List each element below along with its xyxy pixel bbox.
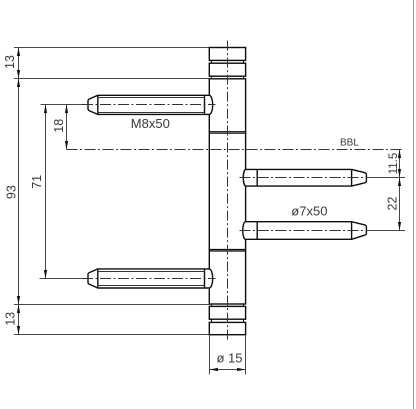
extension of upper-left screw axis <box>41 104 88 106</box>
hinge barrel top cap <box>209 48 245 61</box>
arrow up at 304.5 (13 dim) <box>17 305 20 314</box>
groove 3 inset walls <box>210 304 212 306</box>
extension line bottom of body <box>14 304 209 306</box>
hinge barrel bottom cap <box>209 322 245 334</box>
dimension line right chain <box>399 150 401 231</box>
svg-text:11.5: 11.5 <box>388 153 400 175</box>
hinge barrel main body <box>209 79 245 304</box>
groove 1 inset walls <box>210 60 212 63</box>
centerline upper-right screw over body <box>240 177 368 179</box>
svg-text:M8x50: M8x50 <box>131 116 170 131</box>
arrow down at 334.5 <box>17 326 20 335</box>
svg-text:18: 18 <box>52 119 66 133</box>
arrow up at 46.5 <box>17 48 20 57</box>
svg-text:ø7x50: ø7x50 <box>291 204 327 219</box>
extension of upper-right screw axis <box>366 177 405 179</box>
upper-left screw thread lines <box>98 97 205 99</box>
svg-text:22: 22 <box>385 197 399 211</box>
hinge barrel middle cap <box>209 306 245 319</box>
centerline lower-left screw over body <box>82 278 216 280</box>
dimension line ø15 <box>210 369 246 371</box>
upper-left screw M8x50 body <box>88 95 213 114</box>
arrow up at 78.5 (93 dim) <box>17 79 20 88</box>
extension lines for ø15 <box>209 336 211 375</box>
centerline upper-left screw over body <box>82 104 216 106</box>
dimension line 18 <box>66 105 68 150</box>
lower-left screw thread lines <box>98 271 205 273</box>
svg-text:ø 15: ø 15 <box>217 351 243 366</box>
svg-text:13: 13 <box>3 312 17 326</box>
groove 4 inset walls <box>210 319 212 322</box>
barrel seam upper <box>209 131 245 133</box>
BBL reference centerline <box>67 149 405 151</box>
dimension line 71 <box>45 105 47 279</box>
vertical centerline of barrel <box>227 41 229 341</box>
svg-text:13: 13 <box>3 55 17 69</box>
upper-right screw ø7x50 body <box>243 169 366 186</box>
lower-right screw ø7x50 body <box>243 222 367 240</box>
lower-left screw M8x50 body <box>88 269 213 288</box>
arrow down at 78.5 (13 dim) <box>17 70 20 79</box>
barrel seam lower <box>209 249 245 251</box>
extension line top of barrel <box>14 47 209 49</box>
svg-text:93: 93 <box>4 185 18 199</box>
frame border line (sheet edge) <box>413 0 415 409</box>
extension of lower-right screw axis <box>366 230 405 232</box>
extension line top of body <box>14 78 209 80</box>
svg-text:BBL: BBL <box>340 137 359 148</box>
extension of lower-left screw axis <box>40 278 88 280</box>
arrow down at 304.5 (93 dim) <box>17 296 20 305</box>
hinge barrel second cap <box>209 63 245 76</box>
extension line bottom of barrel <box>14 334 209 336</box>
svg-text:71: 71 <box>30 175 44 189</box>
dimension line left chain <box>18 48 20 335</box>
groove 2 inset walls <box>210 76 212 79</box>
centerline lower-right screw over body <box>240 230 368 232</box>
